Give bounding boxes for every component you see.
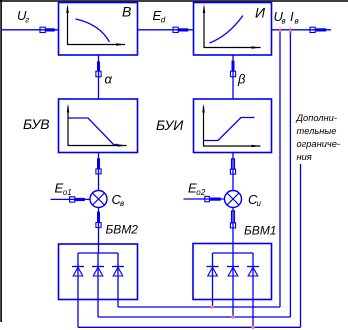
connector on E02 wire [205, 196, 221, 201]
wire И output right [272, 29, 332, 31]
svg-text:I: I [290, 9, 294, 24]
thyristor V1 wire [77, 253, 79, 327]
wire B to И [138, 29, 194, 31]
svg-text:ния: ния [297, 152, 312, 162]
block B characteristic curve [76, 19, 110, 42]
connector on E01 wire [70, 197, 85, 202]
svg-text:И: И [255, 5, 266, 21]
block И characteristic curve [210, 16, 244, 44]
red tap arrow 2 on output wire [289, 27, 293, 33]
connector on C2-БВМ1 wire [230, 211, 235, 228]
thyristor V5 wire [232, 253, 234, 317]
connector on input wire [40, 27, 55, 32]
block B label В [122, 4, 131, 20]
svg-text:α: α [105, 72, 113, 87]
label E01 [55, 181, 72, 198]
frame top border [0, 0, 348, 2]
box БВМ1 [193, 244, 272, 300]
thyristor V2 [92, 267, 104, 277]
label beta [237, 72, 246, 87]
label Дополнительные ограничения [296, 113, 340, 162]
thyristor V4 wire [212, 253, 214, 307]
label Uв [274, 9, 286, 26]
red tap arrow 1 on output wire [278, 27, 282, 33]
connector on wire B-И [173, 27, 188, 32]
block БУВ characteristic polyline [69, 118, 119, 145]
svg-text:о2: о2 [196, 188, 205, 197]
thyristor V4 [207, 267, 219, 277]
junction dot node 3 [251, 326, 254, 329]
wire E01 input [51, 198, 91, 200]
label БВМ2 [106, 223, 139, 237]
constraint wire vertical [300, 164, 302, 327]
label Iв [290, 9, 299, 26]
connector on output wire [310, 27, 326, 32]
connector on БУИ-C2 wire [230, 159, 235, 174]
bottom bus wire 3 [78, 326, 301, 328]
svg-text:БУИ: БУИ [156, 117, 184, 133]
svg-text:г: г [25, 16, 29, 25]
block И graph axes [203, 4, 261, 49]
box БВМ2 [59, 244, 138, 300]
thyristor V1 [72, 267, 84, 277]
connector on БУВ-C1 wire [96, 158, 101, 174]
label БВМ1 [244, 224, 276, 238]
thyristor V2 wire [97, 253, 99, 317]
thyristor V3 [112, 267, 124, 277]
connector on alpha wire [96, 61, 101, 76]
bottom bus wire 2 [98, 316, 290, 318]
thyristor V6 [247, 267, 259, 277]
wire E02 input [184, 198, 225, 200]
svg-text:о1: о1 [63, 188, 72, 197]
svg-text:тельные: тельные [297, 126, 337, 136]
svg-text:в: в [282, 17, 286, 26]
svg-text:ограниче-: ограниче- [297, 139, 340, 149]
БВМ1 top bus [213, 252, 254, 254]
wire C2 to БВМ1 [232, 208, 234, 244]
label E02 [188, 181, 206, 198]
БВМ2 top bus [78, 252, 118, 254]
svg-text:β: β [237, 72, 246, 87]
svg-text:Дополни-: Дополни- [296, 113, 337, 123]
БВМ2 internal feed wire [98, 244, 100, 253]
wire C1 to БВМ2 [98, 208, 100, 245]
wire БУИ to multiplier C2 [232, 153, 234, 191]
svg-text:в: в [120, 199, 124, 208]
block БУИ graph axes [202, 104, 260, 148]
svg-text:БВМ1: БВМ1 [244, 224, 276, 238]
feedback wire Uв vertical [279, 30, 281, 307]
label Cв [112, 192, 125, 208]
frame left border [0, 0, 2, 322]
wire input U to block B [2, 29, 59, 31]
thyristor V5 [227, 267, 239, 277]
svg-text:БУВ: БУВ [23, 116, 50, 132]
svg-text:БВМ2: БВМ2 [106, 223, 139, 237]
block И label [255, 5, 266, 21]
junction dot node 2 [231, 315, 234, 318]
thyristor V3 wire [117, 253, 119, 307]
svg-text:в: в [295, 17, 299, 26]
label Cи [248, 192, 262, 208]
svg-text:В: В [122, 4, 131, 20]
multiplier C1 circle [90, 191, 107, 208]
multiplier C2 circle [225, 191, 242, 208]
block БУИ characteristic polyline [204, 118, 255, 141]
svg-text:d: d [161, 16, 166, 25]
label Uг [17, 8, 29, 25]
thyristor V6 wire [252, 253, 254, 327]
block БУВ [59, 99, 138, 153]
connector on beta wire [230, 61, 235, 77]
bottom bus wire 1 [118, 306, 280, 308]
connector on C1-БВМ2 wire [96, 212, 101, 228]
svg-text:и: и [257, 199, 262, 208]
block B (rectifier) [59, 3, 138, 56]
label БУИ [156, 117, 184, 133]
wire beta И to БУИ [232, 55, 234, 99]
block БУВ graph axes [67, 104, 127, 147]
junction dot node 1 [211, 305, 214, 308]
label Ed [153, 8, 166, 25]
БВМ1 internal feed wire [232, 244, 234, 254]
label alpha [105, 72, 113, 87]
block БУИ [194, 99, 272, 153]
block И (inverter) [194, 3, 272, 56]
feedback wire Iв vertical [289, 30, 291, 317]
label БУВ [23, 116, 50, 132]
block B graph axes [66, 4, 125, 46]
wire alpha B to БУВ [98, 55, 100, 99]
wire БУВ to multiplier C1 [98, 153, 100, 191]
